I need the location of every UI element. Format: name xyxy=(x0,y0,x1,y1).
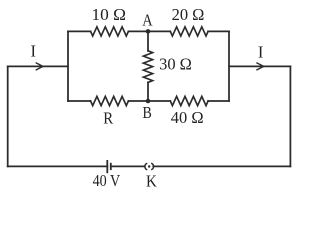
wire: bridge right edge xyxy=(228,31,230,101)
svg-text:R: R xyxy=(103,109,113,128)
wire: bottom from key to right corner xyxy=(153,165,290,167)
resistor 40 Ω xyxy=(170,96,208,105)
wire: left outer vertical xyxy=(7,66,9,166)
wire: bridge left edge xyxy=(67,31,69,101)
wire: bottom between battery and key xyxy=(111,165,145,167)
battery 40 V xyxy=(107,161,111,172)
svg-text:40 V: 40 V xyxy=(93,171,121,190)
wire: bridge top-right segment xyxy=(208,30,229,32)
wire: bridge bottom-left segment xyxy=(68,100,91,102)
node B xyxy=(146,99,151,104)
node A xyxy=(146,29,151,34)
wire: from 30Ω down to node B xyxy=(147,82,149,101)
arrow: left current I xyxy=(36,63,43,70)
svg-text:I: I xyxy=(31,42,37,61)
svg-text:I: I xyxy=(258,42,264,61)
svg-text:30 Ω: 30 Ω xyxy=(159,55,192,74)
wire: bottom from left corner to battery xyxy=(8,165,108,167)
svg-text:A: A xyxy=(142,11,152,30)
wire: bridge top-left segment xyxy=(68,30,91,32)
svg-text:20 Ω: 20 Ω xyxy=(172,5,205,24)
svg-text:40 Ω: 40 Ω xyxy=(171,108,204,127)
resistor R xyxy=(91,96,129,105)
arrow: right current I xyxy=(257,63,264,70)
wire: bridge bottom-right segment xyxy=(208,100,229,102)
resistor 10 Ω xyxy=(91,27,129,36)
wire: right outer vertical xyxy=(289,66,291,166)
wire: bottom segment between R and node B xyxy=(128,100,170,102)
resistor 30 Ω (vertical) xyxy=(143,51,152,83)
resistor 20 Ω xyxy=(170,27,208,36)
svg-text:K: K xyxy=(146,172,157,191)
wire: left input lead with current direction xyxy=(8,65,68,67)
wire: top segment between 10Ω and node A xyxy=(128,30,170,32)
svg-text:B: B xyxy=(142,103,151,122)
wire: right output lead with current direction xyxy=(229,65,290,67)
svg-text:10 Ω: 10 Ω xyxy=(92,5,127,24)
wire: from node A down to 30Ω xyxy=(147,31,149,50)
key K (plug key) xyxy=(145,164,154,170)
